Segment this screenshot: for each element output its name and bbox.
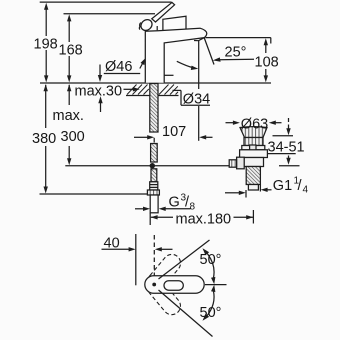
deck section hatching left [127,85,178,95]
vertical reference line from spout tip [198,40,200,89]
svg-text:300: 300 [61,129,85,145]
dimension 108 lower arrow [265,69,267,76]
dashed handle outline lower [144,276,184,319]
svg-text:Ø63: Ø63 [241,116,268,132]
dimension 108 upper arrow [265,45,267,54]
dimension max.300 vertical line [68,85,70,105]
waste seat block [240,150,268,158]
svg-text:108: 108 [255,55,279,71]
hose bottom line B [40,193,151,195]
waste neck band [244,138,263,146]
svg-text:380: 380 [32,131,56,147]
rod clamp nut [229,160,236,167]
waste step ring [242,146,265,150]
dimension 34-51 upper arrow [288,118,290,129]
dimension Ø63 arrows [226,122,234,124]
svg-text:168: 168 [59,43,83,59]
svg-text:Ø46: Ø46 [105,59,132,75]
cartridge tick [156,26,158,30]
tailpipe extension ticks [245,190,247,198]
lever handle blade [152,2,175,22]
svg-text:50°: 50° [200,252,222,268]
upper 50 arc [207,253,215,279]
deck bottom line [126,95,179,97]
rod reference tick right of waste [279,165,300,167]
25 degree leader line with arrow [219,58,254,61]
knob left wiggle [139,23,140,30]
dimension 198 vertical line [45,9,47,36]
max.180 right extension line [252,210,254,224]
supply tube [150,195,158,213]
max.30 upper arrow (down to deck top) [99,65,101,76]
pop-up waste flange [240,127,267,138]
svg-text:4: 4 [303,185,309,196]
supply hose lower [151,169,157,182]
svg-text:34-51: 34-51 [268,139,305,155]
dimension 198 arrowheads [44,3,48,10]
G1 1/4 arrows [225,192,240,194]
svg-text:25°: 25° [225,45,247,61]
faucet body outline [145,28,207,83]
svg-text:G1: G1 [273,178,292,194]
dimension 168 vertical line [68,21,70,43]
waste body [244,158,264,167]
threaded shank below deck [150,84,158,133]
waste tailpipe threaded [246,167,260,185]
dimension 168 arrowheads [67,14,71,21]
dimension 107 line left with arrow [134,136,148,138]
upper diagonal ray [159,240,210,279]
tailpipe stub [248,185,258,191]
tube left extension line [149,213,151,225]
supply hose upper [151,144,158,163]
svg-text:198: 198 [34,37,58,53]
dashed handle outline upper [144,251,184,318]
rod clamp outer [237,157,245,169]
spout tip reference line (108 top) [206,37,271,39]
40 underline arrow [102,248,130,250]
node where rod crosses hose [150,163,155,168]
34-51 lower arrow [288,156,290,159]
max.30 lower arrow (up to deck bottom) [100,103,102,112]
svg-text:107: 107 [162,124,186,140]
lever handle knob [139,17,154,32]
screw dot [152,283,156,287]
svg-text:50°: 50° [200,305,222,321]
dimension max.180 line [151,216,173,218]
svg-text:max.180: max.180 [176,212,232,228]
34-51 upper tick [273,135,294,137]
countertop deck top line [40,82,271,84]
G3/8 tube diameter arrows [135,208,144,210]
horizontal ray [205,284,227,286]
Ø46 leader arrow to body edge [140,62,144,69]
wall reference line [135,234,137,285]
Ø46 diameter arrow inside body [161,74,174,76]
water flow arc arrow [177,61,194,68]
end tick of spout tip line [270,38,272,44]
waste center pin [250,145,256,151]
svg-text:G: G [169,195,180,211]
top reference line (lever tip level) [40,1,172,3]
svg-text:Ø34: Ø34 [183,91,210,107]
hose connector [150,182,158,190]
lower 50 arc [207,291,215,317]
dimension 107 line right with arrow [206,136,213,138]
lever slot [164,281,183,291]
pop-up rod line A [65,165,231,167]
svg-text:max.30: max.30 [75,84,123,100]
svg-text:max.: max. [53,108,84,124]
40 right arrow [162,248,173,250]
spout tip accent [194,38,204,41]
center axis dashed [153,235,155,276]
lower diagonal ray [159,290,213,337]
max.30 leader arrow into deck section [124,88,134,90]
25 degree slant ray from spout tip [204,38,214,65]
connector nut [147,190,159,195]
body outline top view [145,276,204,294]
lever handle rear top [163,16,186,30]
168 reference line [64,13,156,15]
label Ø34 with bracket [173,89,182,91]
deck section hatching right [159,85,169,95]
dimension 380 vertical line [45,85,47,128]
